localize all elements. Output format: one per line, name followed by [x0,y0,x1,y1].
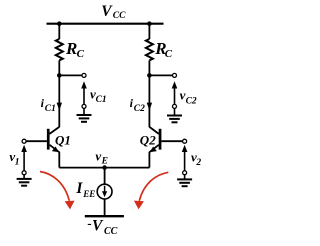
svg-text:CC: CC [104,226,118,237]
arrow v2 [184,152,186,171]
terminal vC1 [82,73,86,77]
svg-text:2: 2 [148,132,156,147]
transistor Q1 [47,127,71,152]
svg-text:C2: C2 [186,96,197,106]
ground under v2 [177,175,192,187]
resistor RC right [146,39,153,60]
arrow vC1 [83,88,85,104]
svg-text:V: V [101,3,113,20]
resistor RC left [56,39,63,60]
wire Q1 emitter drop [58,152,60,168]
wire VCC rail [47,23,164,25]
arrow iC1 on wire [57,103,62,111]
node vC1 junction [57,73,62,78]
terminal circle above ground v2 [183,171,187,175]
wire right collector column [148,75,150,127]
terminal circle above ground v1 [22,171,26,175]
svg-text:v: v [95,148,101,163]
terminal v1 [22,139,26,143]
ground under v1 [17,175,32,186]
node vC2 junction [147,73,152,78]
svg-text:C1: C1 [96,95,107,105]
wire to current source [104,168,106,185]
junction left rail [57,21,62,26]
wire vE bus [59,167,149,169]
wire vC1 branch [59,74,81,76]
wire left column top [58,24,60,39]
terminal vC2 [173,73,177,77]
wire below current source [104,199,106,216]
terminal circle above ground vC1 [82,104,86,108]
current source IEE [97,184,112,199]
wire left column below resistor [58,60,60,75]
arrow iC2 on wire [147,103,152,111]
annotation red arrow left [40,172,75,210]
ground under vC1 [77,108,92,121]
svg-text:1: 1 [64,132,71,147]
svg-text:EE: EE [82,189,95,199]
arrow v1 [23,152,25,171]
wire v1 base [26,140,47,142]
annotation red arrow right [134,172,168,209]
svg-text:I: I [75,180,83,197]
negative supply bar [85,215,124,217]
svg-text:C: C [165,48,173,60]
transistor Q2 [140,127,162,152]
svg-text:C2: C2 [134,104,145,114]
svg-text:V: V [92,218,104,235]
wire right column below resistor [148,60,150,75]
terminal circle above ground vC2 [173,104,177,108]
wire v2 base [161,140,182,142]
svg-text:C1: C1 [45,104,56,114]
terminal v2 [183,139,187,143]
svg-text:E: E [101,156,108,166]
arrow vC2 [174,88,176,104]
junction right rail [147,21,152,26]
svg-text:1: 1 [15,157,20,167]
svg-text:CC: CC [113,11,126,21]
wire Q2 emitter drop [148,152,150,168]
junction vE [102,165,107,170]
svg-text:C: C [77,48,85,60]
ground under vC2 [167,108,182,122]
wire right column top [148,24,150,39]
svg-text:2: 2 [195,158,201,168]
wire left collector column [58,75,60,127]
wire vC2 branch [149,74,172,76]
svg-text:R: R [65,39,77,58]
